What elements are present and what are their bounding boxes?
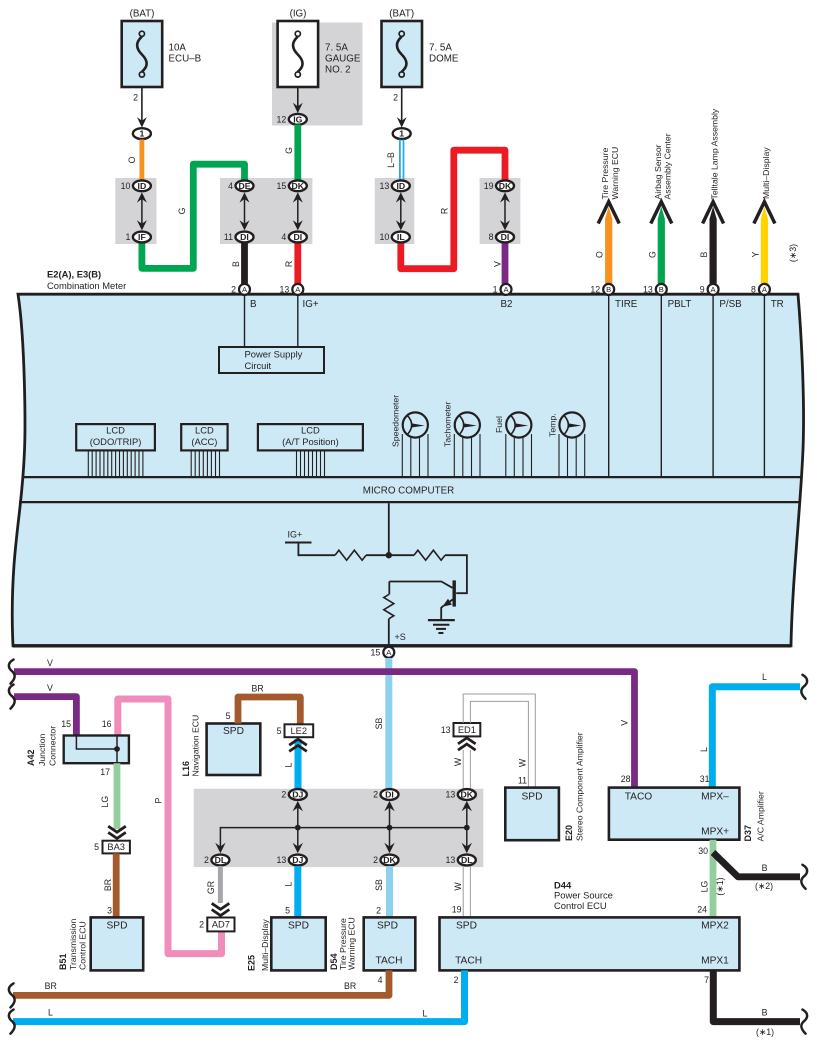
- wire G green IG to DK: [284, 125, 298, 182]
- connector 2 DL: [204, 855, 229, 866]
- svg-text:7. 5A: 7. 5A: [325, 43, 348, 54]
- wire V violet DI to 1A: [493, 243, 506, 285]
- svg-text:B51: B51: [58, 953, 68, 970]
- svg-text:A/C Amplifier: A/C Amplifier: [756, 791, 766, 841]
- connector 13 DJ: [277, 855, 307, 866]
- svg-text:4: 4: [228, 181, 233, 191]
- svg-text:ID: ID: [396, 181, 405, 191]
- brace BR left: [9, 983, 15, 1007]
- wire L blue bottom bus: [13, 970, 465, 1021]
- wire L blue DJ to E25: [284, 866, 298, 917]
- wire arrow PBLT output: [647, 133, 672, 283]
- brace L right: [801, 675, 807, 699]
- svg-text:B: B: [762, 1007, 768, 1017]
- gauge Tachometer: [443, 402, 480, 477]
- connector shade band bottom: [194, 789, 484, 867]
- svg-text:IF: IF: [138, 232, 146, 242]
- svg-text:B: B: [699, 252, 709, 258]
- svg-text:GAUGE: GAUGE: [325, 54, 361, 65]
- svg-text:DE: DE: [238, 181, 250, 191]
- svg-text:5: 5: [285, 906, 290, 916]
- svg-text:3: 3: [107, 906, 112, 916]
- svg-text:13: 13: [643, 285, 653, 295]
- svg-text:IG+: IG+: [303, 299, 319, 310]
- wire LG D37 to D44 MPX2: [697, 840, 725, 918]
- svg-text:30: 30: [698, 846, 708, 856]
- svg-text:Multi–Display: Multi–Display: [260, 919, 270, 971]
- svg-text:TACH: TACH: [455, 955, 482, 966]
- connector 1 (fuse1): [133, 128, 151, 139]
- connector pair 4 DE / 11 DI: [224, 180, 254, 242]
- svg-text:Telltale Lamp Assembly: Telltale Lamp Assembly: [710, 108, 720, 199]
- connector 2 DI: [373, 789, 398, 800]
- svg-text:2: 2: [133, 93, 138, 103]
- svg-text:Tire Pressure: Tire Pressure: [600, 148, 610, 200]
- node 2 A: [239, 284, 250, 295]
- svg-text:DL: DL: [461, 855, 473, 865]
- svg-text:PBLT: PBLT: [668, 299, 692, 310]
- chevron AD7: [212, 910, 230, 916]
- wire R2 to collector: [445, 555, 467, 593]
- svg-text:15: 15: [277, 181, 287, 191]
- connector shade panel DK/DI right: [480, 178, 521, 244]
- svg-text:Control ECU: Control ECU: [554, 900, 607, 911]
- wire L-B blue/black stripe: [386, 140, 404, 181]
- svg-text:+S: +S: [395, 632, 406, 642]
- svg-text:7. 5A: 7. 5A: [429, 43, 452, 54]
- connector 5 BA3: [94, 841, 130, 854]
- svg-text:13: 13: [380, 181, 390, 191]
- svg-text:IG: IG: [293, 114, 302, 124]
- svg-text:1: 1: [125, 232, 130, 242]
- svg-text:19: 19: [452, 905, 462, 915]
- wire micro to node: [388, 503, 390, 555]
- LCD block (ODO/TRIP): [76, 424, 155, 476]
- svg-text:MPX–: MPX–: [701, 792, 729, 803]
- combination meter box E2(A) E3(B): [12, 269, 803, 646]
- svg-text:Navigation ECU: Navigation ECU: [190, 715, 200, 777]
- svg-text:5: 5: [226, 711, 231, 721]
- svg-text:B: B: [659, 285, 664, 294]
- svg-text:SB: SB: [374, 879, 384, 891]
- chevron ED1: [458, 738, 476, 744]
- svg-text:(ODO/TRIP): (ODO/TRIP): [90, 436, 142, 447]
- node PBLT column: [661, 296, 691, 478]
- svg-text:W: W: [453, 757, 463, 766]
- svg-text:DJ: DJ: [292, 790, 303, 800]
- brace V1: [9, 660, 15, 684]
- label D44 Power Source Control ECU: [554, 880, 613, 911]
- connector 13 DK: [446, 789, 476, 800]
- svg-text:SPD: SPD: [522, 792, 543, 803]
- wire GR DL to AD7: [206, 866, 220, 903]
- wire BR BA3 to B51: [103, 853, 116, 917]
- connector 5 LE2: [277, 724, 314, 737]
- svg-text:W: W: [518, 758, 528, 767]
- svg-text:13: 13: [446, 790, 456, 800]
- node 13 B: [656, 284, 667, 295]
- svg-text:16: 16: [102, 719, 112, 729]
- wire R1 to node: [366, 554, 414, 556]
- wire O orange: [127, 140, 142, 181]
- svg-text:DJ: DJ: [292, 855, 303, 865]
- wire SB DK to D54: [374, 866, 390, 917]
- svg-text:DI: DI: [240, 232, 249, 242]
- wire arrow TR output: [750, 147, 775, 284]
- svg-text:1: 1: [399, 129, 404, 139]
- connector 2 AD7: [199, 918, 234, 932]
- transistor Q1: [441, 580, 454, 620]
- junction connector A42: [26, 719, 129, 777]
- ECU E25 Multi-Display: [247, 917, 326, 971]
- svg-text:DK: DK: [292, 181, 305, 191]
- gauge Speedometer: [391, 395, 428, 476]
- svg-text:MICRO COMPUTER: MICRO COMPUTER: [363, 486, 454, 497]
- svg-text:D37: D37: [743, 825, 753, 842]
- node 15 A: [383, 647, 394, 658]
- ECU D44 Power Source Control ECU: [440, 917, 740, 970]
- svg-text:GR: GR: [206, 881, 216, 894]
- connector pair 19 DK / 8 DI: [484, 180, 514, 242]
- svg-text:W: W: [453, 882, 463, 891]
- wire W DL to D44 pin 19: [452, 866, 471, 917]
- svg-text:LCD: LCD: [106, 425, 125, 436]
- svg-text:O: O: [595, 251, 605, 258]
- svg-text:Connector: Connector: [48, 726, 58, 766]
- ECU E20 Stereo Component Amplifier: [505, 732, 584, 841]
- svg-text:2: 2: [281, 790, 286, 800]
- svg-text:Stereo Component Amplifier: Stereo Component Amplifier: [575, 732, 585, 841]
- svg-text:2: 2: [376, 906, 381, 916]
- svg-text:L: L: [699, 747, 709, 752]
- svg-text:LG: LG: [100, 796, 110, 808]
- svg-text:SPD: SPD: [288, 920, 309, 931]
- chevron LE2: [289, 739, 307, 745]
- svg-text:B: B: [231, 261, 241, 267]
- svg-text:2: 2: [373, 790, 378, 800]
- svg-text:DK: DK: [461, 790, 474, 800]
- svg-text:V: V: [493, 261, 503, 267]
- wire W ED1 to DK: [453, 750, 470, 790]
- svg-text:DL: DL: [215, 855, 227, 865]
- svg-text:Junction: Junction: [37, 733, 47, 766]
- svg-text:TACO: TACO: [625, 792, 653, 803]
- svg-text:24: 24: [697, 905, 707, 915]
- wire 2A to power supply: [244, 296, 246, 347]
- resistor R3: [388, 582, 390, 595]
- connector pair 15 DK / 4 DI: [277, 180, 307, 242]
- ECU B51 Transmission Control ECU: [58, 917, 143, 970]
- wire BR bottom bus: [13, 970, 389, 995]
- svg-text:LG: LG: [700, 880, 710, 892]
- svg-text:B2: B2: [501, 299, 513, 310]
- svg-text:DK: DK: [499, 181, 512, 191]
- svg-text:5: 5: [277, 726, 282, 736]
- connector 1 (fuse3): [393, 128, 411, 139]
- svg-text:E25: E25: [247, 955, 257, 971]
- svg-text:12: 12: [590, 285, 600, 295]
- svg-text:11: 11: [518, 776, 527, 786]
- svg-text:13: 13: [446, 855, 456, 865]
- connector pair 10 ID / 1 IF: [121, 180, 151, 242]
- svg-text:MPX1: MPX1: [701, 955, 729, 966]
- svg-text:MPX+: MPX+: [701, 827, 729, 838]
- node TR column: [764, 296, 783, 478]
- svg-text:(IG): (IG): [290, 9, 307, 20]
- svg-text:SPD: SPD: [107, 920, 128, 931]
- wire W loop ED1 to E20 pin 11: [463, 694, 535, 788]
- node 8 A: [759, 284, 770, 295]
- LCD block (A/T Position): [258, 424, 363, 476]
- wire bus junction band: [220, 805, 469, 848]
- chevron BA3: [108, 832, 126, 838]
- svg-text:Airbag Sensor: Airbag Sensor: [653, 144, 663, 199]
- svg-text:BA3: BA3: [107, 842, 125, 852]
- svg-text:10: 10: [121, 181, 131, 191]
- svg-text:Warning ECU: Warning ECU: [610, 147, 620, 200]
- ECU L16 Navigation ECU: [181, 715, 260, 777]
- connector shade panel ID/IF: [115, 178, 156, 244]
- svg-text:2: 2: [393, 93, 398, 103]
- gauge Temp.: [547, 412, 584, 476]
- wire fuse2 to IG: [293, 87, 303, 113]
- wire L blue LE2 to DJ: [284, 739, 299, 790]
- node TIRE column: [609, 296, 638, 478]
- svg-text:1: 1: [139, 129, 144, 139]
- svg-text:8: 8: [489, 232, 494, 242]
- svg-text:2: 2: [204, 855, 209, 865]
- power supply circuit box: [219, 347, 324, 373]
- connector 13 DL: [446, 855, 476, 866]
- svg-text:B: B: [250, 299, 257, 310]
- svg-text:L: L: [284, 881, 294, 886]
- svg-text:5: 5: [94, 842, 99, 852]
- svg-text:V: V: [620, 720, 630, 726]
- svg-text:10A: 10A: [169, 43, 187, 54]
- wire 13A to power supply: [297, 296, 299, 347]
- svg-text:SPD: SPD: [377, 920, 398, 931]
- svg-text:R: R: [440, 208, 450, 214]
- svg-text:DI: DI: [293, 232, 302, 242]
- svg-text:2: 2: [454, 975, 459, 985]
- resistor R1: [335, 550, 366, 560]
- svg-text:Control ECU: Control ECU: [78, 921, 88, 970]
- wire P pink loop: [118, 699, 222, 954]
- svg-text:15: 15: [371, 648, 381, 658]
- resistor R2: [414, 550, 445, 560]
- svg-text:DOME: DOME: [429, 54, 459, 65]
- svg-text:SPD: SPD: [223, 726, 244, 737]
- svg-text:Power Supply: Power Supply: [245, 349, 303, 360]
- svg-text:7: 7: [704, 975, 709, 985]
- svg-text:IL: IL: [397, 232, 405, 242]
- wire B black MPX1 out: [704, 970, 800, 1036]
- svg-text:B: B: [606, 285, 611, 294]
- svg-text:ED1: ED1: [458, 725, 476, 735]
- node IG+ terminal: [285, 530, 335, 556]
- svg-text:L: L: [284, 762, 294, 767]
- wire fuse1 pin 2: [133, 87, 147, 128]
- arrows into band ovals: [215, 801, 472, 853]
- svg-text:Multi–Display: Multi–Display: [761, 147, 771, 199]
- svg-text:G: G: [284, 147, 294, 154]
- connector 12 IG: [277, 114, 307, 125]
- svg-text:LE2: LE2: [291, 726, 308, 736]
- svg-text:TACH: TACH: [376, 955, 403, 966]
- wire G green loop IF to DE: [142, 164, 245, 268]
- svg-text:P/SB: P/SB: [719, 299, 742, 310]
- connector shade panel ID/IL: [375, 178, 415, 244]
- svg-text:13: 13: [441, 725, 451, 735]
- connector pair 13 ID / 10 IL: [380, 180, 410, 242]
- svg-text:(A/T Position): (A/T Position): [282, 436, 339, 447]
- svg-text:4: 4: [378, 975, 383, 985]
- fuse 7.5A DOME: [382, 9, 459, 88]
- wire arrow P/SB output: [699, 108, 724, 283]
- svg-text:V: V: [47, 658, 53, 668]
- connector shade panel IG fuse: [272, 23, 363, 126]
- connector 13 ED1: [441, 723, 481, 736]
- svg-text:2: 2: [373, 855, 378, 865]
- svg-text:L: L: [48, 1007, 53, 1017]
- svg-text:13: 13: [277, 855, 287, 865]
- svg-text:B: B: [762, 863, 768, 873]
- wire R3 to +S: [388, 619, 390, 646]
- svg-text:(∗1): (∗1): [715, 877, 725, 895]
- svg-text:2: 2: [231, 285, 236, 295]
- svg-text:DI: DI: [501, 232, 510, 242]
- svg-text:12: 12: [277, 115, 287, 125]
- brace B1 right: [801, 1010, 807, 1034]
- svg-text:(ACC): (ACC): [191, 436, 217, 447]
- svg-text:LCD: LCD: [195, 425, 214, 436]
- svg-text:O: O: [127, 156, 137, 163]
- svg-text:10: 10: [380, 232, 390, 242]
- connector shade panel DE/DI DK/DI: [220, 178, 312, 244]
- svg-text:SPD: SPD: [456, 920, 477, 931]
- svg-text:AD7: AD7: [212, 920, 230, 930]
- brace L left bottom: [9, 1010, 15, 1034]
- svg-text:28: 28: [621, 774, 631, 784]
- wire SB 15A down: [374, 658, 389, 790]
- wire base lead: [389, 582, 452, 588]
- svg-text:1: 1: [493, 285, 498, 295]
- svg-text:Tachometer: Tachometer: [443, 402, 453, 447]
- svg-text:A42: A42: [26, 749, 36, 766]
- wire V violet bus to TACO: [14, 658, 635, 788]
- svg-text:11: 11: [224, 232, 233, 242]
- svg-text:8: 8: [751, 285, 756, 295]
- node 13 A: [292, 284, 303, 295]
- node P/SB column: [713, 296, 742, 478]
- node 12 B: [603, 284, 614, 295]
- wire LG A42 to BA3: [100, 763, 117, 829]
- ground: [428, 620, 455, 633]
- fuse 7.5A GAUGE NO.2: [278, 9, 361, 88]
- wire V violet to junction A42: [14, 683, 76, 736]
- wire B black branch (*2): [713, 853, 800, 891]
- svg-text:Circuit: Circuit: [245, 360, 272, 371]
- fuse 10A ECU-B: [122, 9, 202, 88]
- svg-text:L: L: [423, 1008, 428, 1018]
- svg-text:R: R: [284, 261, 294, 267]
- svg-text:LCD: LCD: [301, 425, 320, 436]
- svg-text:ECU–B: ECU–B: [169, 54, 202, 65]
- wire R red DI to 13A: [284, 243, 298, 285]
- gauge Fuel: [494, 412, 531, 476]
- svg-text:Fuel: Fuel: [494, 416, 504, 433]
- svg-text:G: G: [177, 207, 187, 214]
- svg-text:BR: BR: [103, 879, 113, 891]
- connector 2 DK: [373, 855, 398, 866]
- node 1 A: [501, 284, 512, 295]
- svg-text:Combination Meter: Combination Meter: [47, 280, 126, 291]
- ECU D54 Tire Pressure Warning ECU: [329, 917, 415, 970]
- svg-text:31: 31: [700, 774, 710, 784]
- brace V2: [9, 685, 15, 709]
- svg-text:(∗2): (∗2): [755, 881, 773, 891]
- svg-text:13: 13: [280, 285, 290, 295]
- svg-text:ID: ID: [138, 181, 147, 191]
- node 9 A: [708, 284, 719, 295]
- svg-text:TR: TR: [771, 299, 784, 310]
- junction node: [386, 552, 392, 558]
- svg-text:P: P: [154, 797, 164, 803]
- svg-text:L–B: L–B: [386, 152, 396, 168]
- svg-text:DI: DI: [385, 790, 394, 800]
- LCD block (ACC): [181, 424, 227, 476]
- svg-text:IG+: IG+: [288, 530, 303, 540]
- svg-text:BR: BR: [45, 981, 57, 991]
- svg-text:TIRE: TIRE: [615, 299, 638, 310]
- svg-text:BR: BR: [252, 684, 264, 694]
- wire arrow TIRE output: [595, 147, 620, 284]
- svg-text:BR: BR: [344, 981, 356, 991]
- svg-text:G: G: [647, 251, 657, 258]
- connector 2 DJ: [281, 789, 306, 800]
- svg-text:Temp.: Temp.: [547, 413, 557, 437]
- MICRO COMPUTER bar: [19, 477, 801, 502]
- svg-text:15: 15: [61, 719, 71, 729]
- svg-text:E2(A), E3(B): E2(A), E3(B): [47, 269, 101, 280]
- svg-text:17: 17: [100, 767, 110, 777]
- wire fuse3 pin 2: [393, 87, 407, 128]
- svg-text:SB: SB: [374, 718, 384, 730]
- svg-text:DK: DK: [383, 855, 396, 865]
- svg-text:(BAT): (BAT): [130, 9, 155, 20]
- svg-text:(∗1): (∗1): [756, 1027, 774, 1037]
- svg-text:19: 19: [484, 181, 494, 191]
- wire R red loop IL to DK: [401, 150, 505, 269]
- wire B black DI to 2A: [231, 243, 245, 285]
- svg-text:NO. 2: NO. 2: [325, 65, 351, 76]
- brace B2 right: [801, 865, 807, 889]
- svg-text:9: 9: [700, 285, 705, 295]
- wire BR L16 to LE2: [226, 684, 301, 725]
- wire L blue D37 MPX- out: [699, 672, 800, 788]
- svg-text:V: V: [47, 683, 53, 693]
- svg-text:MPX2: MPX2: [701, 920, 729, 931]
- svg-text:(BAT): (BAT): [389, 9, 414, 20]
- svg-text:E20: E20: [564, 825, 574, 841]
- svg-text:Warning ECU: Warning ECU: [346, 917, 356, 970]
- svg-text:(∗3): (∗3): [788, 244, 798, 262]
- svg-text:4: 4: [281, 232, 286, 242]
- svg-text:Speedometer: Speedometer: [391, 395, 401, 447]
- svg-text:Y: Y: [750, 252, 760, 258]
- svg-text:Transmission: Transmission: [68, 919, 78, 970]
- svg-text:2: 2: [199, 920, 204, 930]
